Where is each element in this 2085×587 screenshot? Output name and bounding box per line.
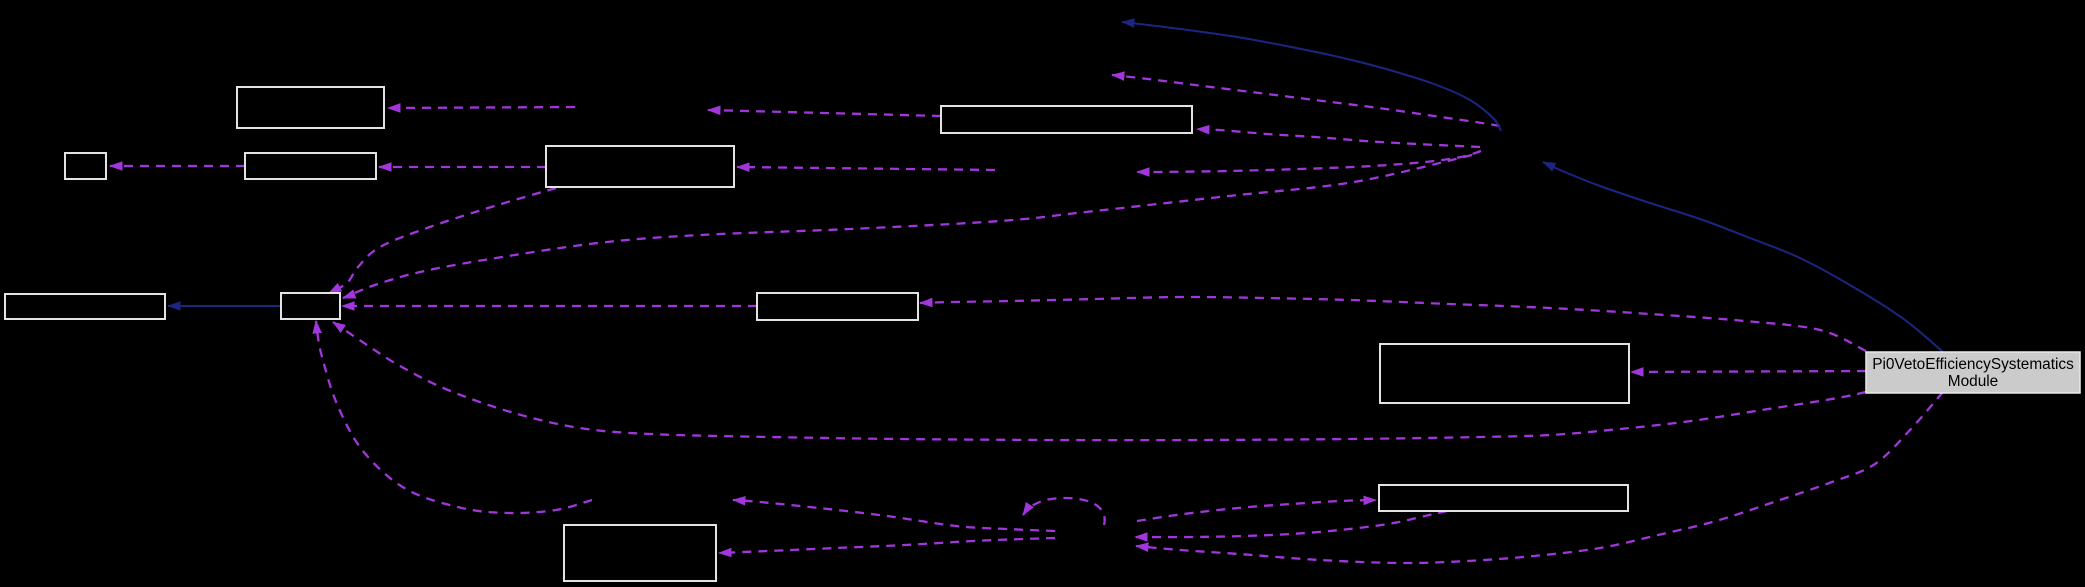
node A	[237, 87, 384, 128]
edge main to node G	[333, 322, 1866, 440]
node H	[757, 293, 918, 320]
edge node E to invis1	[708, 110, 941, 116]
blue edge conv to invis6	[1122, 22, 1501, 131]
node K	[564, 525, 716, 581]
edge node D to node C	[379, 166, 546, 168]
edge node D to node G	[329, 188, 556, 293]
node E	[941, 106, 1192, 133]
edge conv to node G	[343, 155, 1472, 298]
node B	[65, 153, 106, 179]
node G	[281, 293, 340, 319]
node J	[1379, 485, 1628, 511]
edge loop node to invis3	[733, 500, 1055, 531]
edge node J to loop node	[1135, 511, 1447, 537]
edge node H to node G	[342, 305, 757, 307]
edge conv to node E	[1197, 129, 1480, 147]
edge loop node to node J	[1137, 500, 1376, 521]
edge main to loop node	[1136, 392, 1943, 563]
edge invis2 to node D	[737, 167, 995, 170]
svg-text:Module: Module	[1948, 373, 1998, 390]
node C	[245, 153, 376, 179]
edge main to node H	[920, 297, 1866, 351]
blue edge node G to node F	[168, 305, 281, 307]
node D	[546, 146, 734, 187]
edge invis1 to node A	[388, 107, 575, 108]
node F	[5, 294, 165, 319]
edge conv to invis5	[1112, 75, 1500, 126]
edge loop node to node K	[719, 538, 1055, 553]
svg-text:Pi0VetoEfficiencySystematics: Pi0VetoEfficiencySystematics	[1872, 356, 2074, 373]
blue edge main to conv	[1543, 162, 1943, 352]
node I	[1380, 344, 1629, 403]
edge invis3 to node G	[316, 321, 592, 513]
edge conv to invis2	[1137, 151, 1481, 172]
edge node C to node B	[110, 165, 245, 167]
edge main to node I	[1631, 371, 1866, 372]
self loop on loop node	[1023, 498, 1105, 525]
main node Pi0VetoEfficiencySystematicsModule	[1866, 352, 2080, 393]
